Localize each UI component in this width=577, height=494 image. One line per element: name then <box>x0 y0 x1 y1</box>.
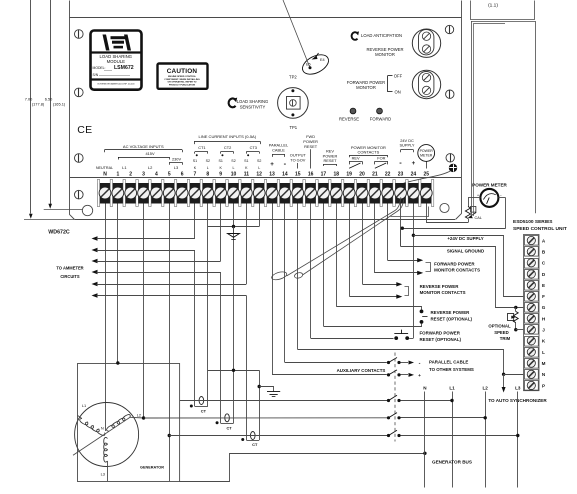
svg-text:+24V DC SUPPLY: +24V DC SUPPLY <box>447 236 483 241</box>
svg-text:(177.8): (177.8) <box>32 101 45 106</box>
svg-text:19: 19 <box>346 171 352 177</box>
svg-text:L: L <box>258 166 260 170</box>
svg-text:S/N: S/N <box>93 73 99 77</box>
svg-text:CT: CT <box>201 409 207 414</box>
svg-text:L: L <box>542 350 545 355</box>
svg-text:+: + <box>418 374 421 379</box>
svg-text:RESET (OPTIONAL): RESET (OPTIONAL) <box>431 316 473 321</box>
svg-text:J: J <box>542 328 545 333</box>
svg-text:N: N <box>103 171 107 177</box>
svg-text:FORWARD POWER: FORWARD POWER <box>434 261 475 266</box>
svg-text:CONTACTS: CONTACTS <box>358 149 380 154</box>
svg-text:230V: 230V <box>172 157 181 162</box>
svg-text:CT3: CT3 <box>250 145 257 150</box>
svg-text:415V: 415V <box>145 151 154 156</box>
svg-text:ON: ON <box>395 89 401 94</box>
svg-text:FORWARD POWER: FORWARD POWER <box>420 331 461 336</box>
svg-text:CT2: CT2 <box>224 145 231 150</box>
svg-text:WD672C: WD672C <box>48 230 70 236</box>
svg-text:9: 9 <box>219 171 222 177</box>
svg-text:AUXILIARY CONTACTS: AUXILIARY CONTACTS <box>337 368 386 373</box>
svg-text:ENGINE SPEED CONTROL: ENGINE SPEED CONTROL <box>168 76 196 78</box>
svg-text:S1: S1 <box>244 159 248 163</box>
svg-text:MODULE: MODULE <box>107 59 126 64</box>
svg-text:10: 10 <box>231 171 237 177</box>
svg-text:6: 6 <box>181 171 184 177</box>
svg-text:L1: L1 <box>82 403 86 408</box>
svg-text:G: G <box>542 305 546 310</box>
svg-text:L1: L1 <box>122 165 127 170</box>
svg-text:TO OTHER SYSTEMS: TO OTHER SYSTEMS <box>429 367 474 372</box>
svg-text:25: 25 <box>423 171 429 177</box>
svg-text:22: 22 <box>385 171 391 177</box>
svg-text:-: - <box>419 360 421 366</box>
svg-text:+: + <box>270 161 274 168</box>
svg-text:11: 11 <box>244 171 250 177</box>
svg-text:REV: REV <box>352 156 360 161</box>
svg-text:N: N <box>101 426 104 431</box>
svg-text:(1.1): (1.1) <box>488 3 498 9</box>
svg-text:GENERATOR: GENERATOR <box>140 466 164 470</box>
svg-text:18: 18 <box>334 171 340 177</box>
svg-text:TP2: TP2 <box>289 75 297 80</box>
svg-text:SIGNAL GROUND: SIGNAL GROUND <box>447 248 484 253</box>
svg-text:PARALLEL CABLE: PARALLEL CABLE <box>429 360 468 365</box>
svg-text:14: 14 <box>282 171 288 177</box>
svg-text:MODEL:: MODEL: <box>93 66 106 70</box>
svg-text:POWER: POWER <box>420 149 434 153</box>
svg-text:S2: S2 <box>257 159 261 163</box>
svg-text:POWER METER: POWER METER <box>472 182 507 187</box>
svg-text:TO AMMETER: TO AMMETER <box>56 265 83 270</box>
svg-text:SPEED: SPEED <box>494 330 509 335</box>
svg-text:S2: S2 <box>231 159 235 163</box>
svg-text:E4: E4 <box>320 58 325 62</box>
svg-text:METER: METER <box>420 154 433 158</box>
svg-text:REVERSE: REVERSE <box>339 116 359 121</box>
svg-text:TRIM: TRIM <box>500 336 511 341</box>
svg-text:L: L <box>207 166 209 170</box>
svg-text:LOAD ANTICIPATION: LOAD ANTICIPATION <box>361 33 402 38</box>
svg-text:SUPPLY: SUPPLY <box>399 143 414 148</box>
svg-text:OFF: OFF <box>394 74 403 79</box>
svg-text:20: 20 <box>359 171 365 177</box>
svg-text:CAL: CAL <box>475 216 482 220</box>
svg-text:23: 23 <box>398 171 404 177</box>
svg-text:MONITOR: MONITOR <box>356 85 376 90</box>
svg-text:OPTIONAL: OPTIONAL <box>488 324 511 329</box>
svg-text:RESET: RESET <box>304 144 318 149</box>
svg-text:SPEED CONTROL UNIT: SPEED CONTROL UNIT <box>513 226 567 232</box>
svg-text:L3: L3 <box>174 165 179 170</box>
svg-text:MONITOR: MONITOR <box>375 52 395 57</box>
svg-text:FOR: FOR <box>377 156 385 161</box>
svg-text:(165.1): (165.1) <box>53 101 66 106</box>
svg-text:MONITOR CONTACTS: MONITOR CONTACTS <box>434 267 480 272</box>
svg-text:CT: CT <box>226 425 232 430</box>
svg-text:RESET: RESET <box>324 158 338 163</box>
svg-text:SENSITIVITY: SENSITIVITY <box>240 104 266 109</box>
svg-text:AC VOLTAGE INPUTS: AC VOLTAGE INPUTS <box>123 144 164 149</box>
svg-text:S1: S1 <box>218 159 222 163</box>
svg-text:P: P <box>542 383 545 388</box>
svg-text:TP1: TP1 <box>289 125 297 130</box>
svg-text:4: 4 <box>155 171 158 177</box>
svg-text:24: 24 <box>411 171 417 177</box>
svg-text:21: 21 <box>372 171 378 177</box>
svg-text:2: 2 <box>129 171 132 177</box>
svg-text:L2: L2 <box>148 165 153 170</box>
svg-text:CT: CT <box>252 442 258 447</box>
svg-text:CAUTION: CAUTION <box>167 68 198 75</box>
svg-text:L1: L1 <box>449 385 455 390</box>
svg-text:12: 12 <box>256 171 262 177</box>
svg-text:MONITOR CONTACTS: MONITOR CONTACTS <box>420 290 466 295</box>
svg-text:3: 3 <box>142 171 145 177</box>
svg-text:S1: S1 <box>193 159 197 163</box>
svg-text:5: 5 <box>168 171 171 177</box>
svg-text:CIRCUITS: CIRCUITS <box>60 274 80 279</box>
svg-text:OR OPERATING, REFER TO: OR OPERATING, REFER TO <box>168 81 197 84</box>
svg-text:+: + <box>412 160 416 167</box>
svg-text:L2: L2 <box>483 385 489 390</box>
svg-text:RESET (OPTIONAL): RESET (OPTIONAL) <box>420 337 462 342</box>
svg-text:TO GOV: TO GOV <box>290 157 305 162</box>
svg-text:16: 16 <box>308 171 314 177</box>
svg-text:GOVERNORS AMERICA CORP. 00-000: GOVERNORS AMERICA CORP. 00-000 <box>97 83 135 86</box>
svg-text:15: 15 <box>295 171 301 177</box>
svg-text:13: 13 <box>269 171 275 177</box>
svg-text:L3: L3 <box>101 471 105 476</box>
svg-text:PRODUCT PUBLICATION: PRODUCT PUBLICATION <box>169 83 196 86</box>
svg-text:COMPONENT. WHEN INSTALLING: COMPONENT. WHEN INSTALLING <box>164 78 200 81</box>
svg-text:7: 7 <box>194 171 197 177</box>
svg-text:GENERATOR BUS: GENERATOR BUS <box>432 459 472 464</box>
svg-text:+: + <box>477 194 479 198</box>
svg-text:17: 17 <box>321 171 327 177</box>
svg-text:1: 1 <box>116 171 119 177</box>
svg-text:S2: S2 <box>206 159 210 163</box>
svg-text:E: E <box>542 283 545 288</box>
svg-text:NEUTRAL: NEUTRAL <box>96 166 113 170</box>
svg-text:ESD5100 SERIES: ESD5100 SERIES <box>513 219 553 225</box>
svg-text:LSM672: LSM672 <box>114 65 134 71</box>
svg-text:L3: L3 <box>515 385 521 390</box>
svg-text:LINE CURRENT INPUTS (0-5A): LINE CURRENT INPUTS (0-5A) <box>199 134 257 139</box>
svg-text:FORWARD: FORWARD <box>370 116 391 121</box>
svg-text:L: L <box>233 166 235 170</box>
svg-text:CT1: CT1 <box>198 145 205 150</box>
svg-text:CABLE: CABLE <box>272 147 285 152</box>
svg-text:F: F <box>542 294 545 299</box>
svg-text:REVERSE POWER: REVERSE POWER <box>420 284 460 289</box>
svg-text:M: M <box>542 361 546 366</box>
svg-text:8: 8 <box>206 171 209 177</box>
svg-text:REVERSE POWER: REVERSE POWER <box>431 310 471 315</box>
svg-text:CE: CE <box>77 124 92 136</box>
svg-text:L2: L2 <box>137 412 141 417</box>
